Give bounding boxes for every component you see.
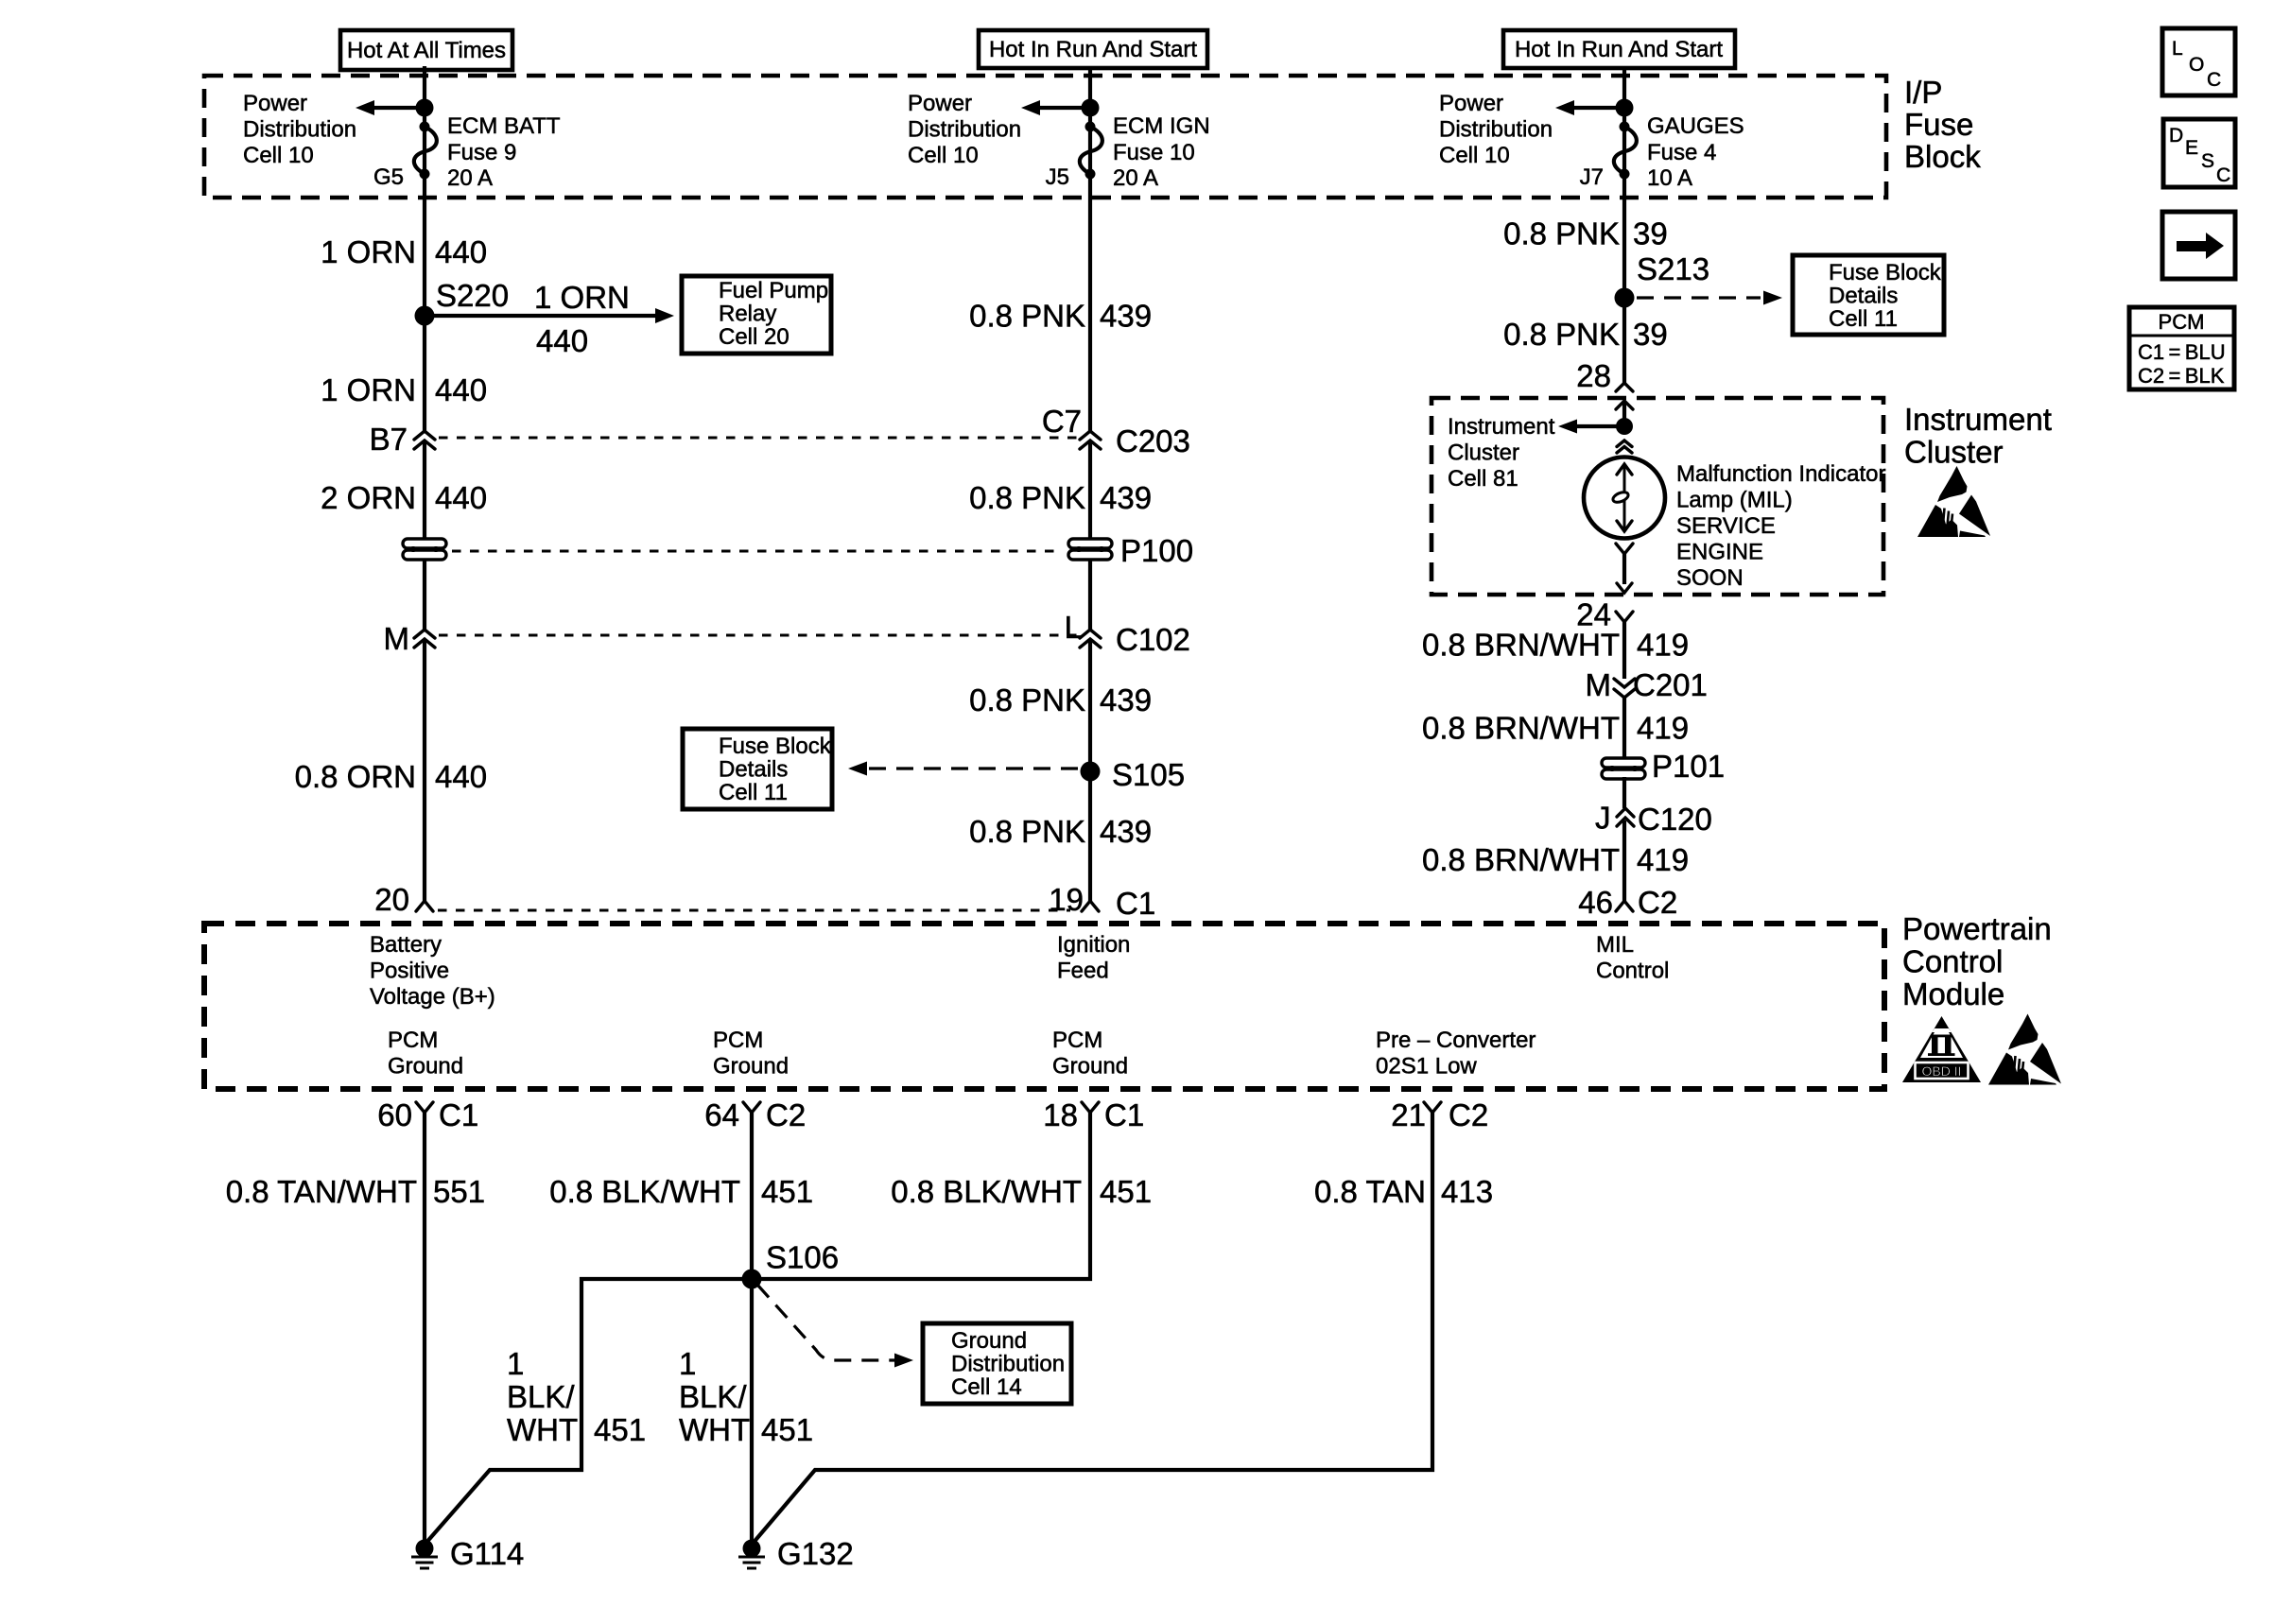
- svg-text:0.8 TAN/WHT: 0.8 TAN/WHT: [226, 1174, 417, 1209]
- label 1 BLK/WHT 451 (right): [679, 1346, 813, 1447]
- svg-text:451: 451: [594, 1412, 646, 1447]
- svg-text:64: 64: [704, 1097, 739, 1132]
- wire segment mid col below C102: [1088, 641, 1092, 901]
- svg-text:OBD II: OBD II: [1921, 1063, 1961, 1079]
- I/P fuse block dashed box: [204, 76, 1886, 198]
- svg-text:D: D: [2169, 125, 2183, 147]
- svg-text:439: 439: [1100, 814, 1152, 849]
- svg-text:21: 21: [1391, 1097, 1426, 1132]
- svg-text:451: 451: [761, 1174, 813, 1209]
- pin 19 C1 chevron at PCM: [1049, 882, 1155, 921]
- svg-text:Distribution: Distribution: [1439, 117, 1553, 143]
- pin 46 C2 chevron at PCM: [1578, 885, 1677, 920]
- legend DESC box: [2163, 119, 2235, 187]
- callout box Fuel Pump Relay Cell 20: [682, 276, 831, 354]
- svg-text:C7: C7: [1042, 404, 1082, 439]
- banner box Hot At All Times: [340, 30, 512, 70]
- wire from banner 3 into fuse block: [1622, 66, 1626, 383]
- svg-text:28: 28: [1576, 358, 1611, 393]
- label 0.8 TAN 413: [1314, 1174, 1493, 1209]
- label 0.8 BRN/WHT 419 (2): [1422, 711, 1689, 746]
- callout box Fuse Block Details Cell 11 (right): [1793, 255, 1944, 335]
- svg-text:C: C: [2216, 164, 2230, 186]
- label 0.8 BLK/WHT 451 (left): [549, 1174, 813, 1209]
- splice S105: [1081, 757, 1186, 792]
- svg-text:Voltage (B+): Voltage (B+): [370, 984, 495, 1010]
- label 0.8 BRN/WHT 419 (3): [1422, 842, 1689, 877]
- svg-text:ENGINE: ENGINE: [1676, 540, 1763, 565]
- svg-text:C1 = BLU: C1 = BLU: [2138, 340, 2226, 364]
- ESD symbol (PCM): [1988, 1014, 2061, 1085]
- dashed link pin 20 to pin 19: [438, 909, 1070, 912]
- svg-text:M: M: [384, 621, 410, 656]
- banner box Hot In Run And Start (right): [1503, 30, 1735, 68]
- svg-text:Block: Block: [1904, 139, 1981, 174]
- svg-text:Fuse Block: Fuse Block: [719, 734, 832, 759]
- wire segment left col below B7: [423, 441, 426, 539]
- connector C203: [1042, 404, 1190, 458]
- svg-text:Feed: Feed: [1057, 959, 1109, 984]
- ESD symbol (instrument cluster): [1917, 466, 1990, 537]
- svg-text:0.8 PNK: 0.8 PNK: [969, 299, 1085, 334]
- svg-text:Cell 10: Cell 10: [908, 143, 979, 168]
- label Instrument Cluster (title): [1904, 402, 2052, 470]
- svg-text:440: 440: [435, 372, 487, 407]
- label 0.8 BRN/WHT 419 (1): [1422, 628, 1689, 663]
- svg-text:440: 440: [435, 480, 487, 515]
- svg-text:0.8 BRN/WHT: 0.8 BRN/WHT: [1422, 711, 1620, 746]
- in-line connector (left, pass-through): [403, 539, 446, 560]
- in-line connector P101: [1602, 749, 1725, 784]
- banner box Hot In Run And Start (middle): [979, 30, 1207, 68]
- splice S220: [415, 278, 510, 326]
- wire segment P101 to C120: [1622, 777, 1626, 808]
- PCM pin function text PCM Ground 3: [1052, 1028, 1128, 1080]
- svg-text:0.8 PNK: 0.8 PNK: [969, 480, 1085, 515]
- svg-text:O: O: [2189, 54, 2204, 76]
- svg-text:0.8 BLK/WHT: 0.8 BLK/WHT: [549, 1174, 740, 1209]
- label 0.8 PNK 439 (2): [969, 480, 1152, 515]
- wire segment left col below M: [423, 641, 426, 901]
- svg-text:G114: G114: [450, 1536, 524, 1571]
- svg-text:Details: Details: [1829, 284, 1898, 309]
- wire segment left col below P100 lens: [423, 560, 426, 630]
- junction dot col3: [1616, 99, 1634, 117]
- svg-text:J5: J5: [1046, 164, 1069, 190]
- svg-text:Lamp (MIL): Lamp (MIL): [1676, 488, 1793, 513]
- pin 64 C2 with Y connector: [704, 1097, 806, 1132]
- splice S106: [742, 1240, 840, 1289]
- svg-text:C102: C102: [1116, 622, 1190, 657]
- pin 18 C1 with Y connector: [1043, 1097, 1144, 1132]
- svg-text:Hot In Run And Start: Hot In Run And Start: [989, 37, 1197, 62]
- text Power Distribution Cell 10 col3: [1439, 91, 1553, 168]
- callout box Ground Distribution Cell 14: [923, 1323, 1071, 1404]
- svg-text:ECM IGN: ECM IGN: [1113, 113, 1210, 139]
- svg-text:440: 440: [435, 234, 487, 269]
- svg-text:10 A: 10 A: [1647, 165, 1692, 191]
- svg-text:Power: Power: [1439, 91, 1503, 116]
- svg-text:20: 20: [374, 882, 409, 917]
- svg-text:M: M: [1586, 667, 1612, 702]
- svg-text:Cell 81: Cell 81: [1448, 466, 1518, 492]
- svg-text:0.8 BRN/WHT: 0.8 BRN/WHT: [1422, 628, 1620, 663]
- label ECM IGN Fuse 10 20 A: [1113, 113, 1210, 191]
- svg-text:2 ORN: 2 ORN: [321, 480, 416, 515]
- svg-text:451: 451: [1100, 1174, 1152, 1209]
- connector C201: [1586, 667, 1708, 702]
- svg-text:Fuse 4: Fuse 4: [1647, 140, 1716, 165]
- svg-text:Details: Details: [719, 757, 788, 783]
- wire from banner 2 into fuse block: [1088, 66, 1092, 431]
- connector B7 half: [370, 422, 435, 457]
- PCM pin function text Battery Positive Voltage (B+): [370, 932, 495, 1010]
- svg-text:SERVICE: SERVICE: [1676, 513, 1776, 539]
- svg-text:20 A: 20 A: [1113, 165, 1158, 191]
- label 0.8 ORN 440: [295, 759, 487, 794]
- svg-text:Cluster: Cluster: [1904, 435, 2004, 470]
- svg-text:WHT: WHT: [679, 1412, 750, 1447]
- wire segment mid col below P100: [1088, 560, 1092, 630]
- svg-text:Cell 11: Cell 11: [1829, 306, 1898, 332]
- label 1 ORN 440 (upper): [321, 234, 487, 269]
- text Instrument Cluster Cell 81: [1448, 414, 1555, 492]
- svg-text:S106: S106: [766, 1240, 839, 1275]
- svg-text:Fuel Pump: Fuel Pump: [719, 278, 828, 303]
- svg-text:419: 419: [1637, 842, 1689, 877]
- svg-text:Cell 10: Cell 10: [1439, 143, 1510, 168]
- svg-text:0.8 BLK/WHT: 0.8 BLK/WHT: [891, 1174, 1082, 1209]
- svg-text:60: 60: [377, 1097, 412, 1132]
- svg-text:Distribution: Distribution: [908, 117, 1021, 143]
- arrow to Power Distribution col1: [356, 100, 425, 115]
- svg-text:MIL: MIL: [1596, 932, 1634, 958]
- svg-text:Malfunction Indicator: Malfunction Indicator: [1676, 461, 1885, 487]
- svg-text:Distribution: Distribution: [243, 117, 356, 143]
- svg-text:Power: Power: [243, 91, 307, 116]
- wire from banner 1 into fuse block: [423, 66, 426, 431]
- svg-text:Ground: Ground: [951, 1328, 1027, 1354]
- text Malfunction Indicator Lamp (MIL) SERVICE ENGINE SOON: [1676, 461, 1885, 591]
- PCM pin function text PCM Ground 1: [388, 1028, 463, 1080]
- connector halves above MIL lamp: [1617, 441, 1632, 453]
- in-line connector P100: [1068, 533, 1193, 568]
- svg-text:B7: B7: [370, 422, 408, 457]
- svg-text:Control: Control: [1596, 959, 1669, 984]
- svg-text:Cell 10: Cell 10: [243, 143, 314, 168]
- text Power Distribution Cell 10 col1: [243, 91, 356, 168]
- svg-text:P100: P100: [1120, 533, 1193, 568]
- label GAUGES Fuse 4 10 A: [1647, 113, 1744, 191]
- svg-text:Ground: Ground: [388, 1054, 463, 1080]
- label 0.8 PNK 439 (1): [969, 299, 1152, 334]
- svg-text:C2: C2: [766, 1097, 806, 1132]
- svg-text:439: 439: [1100, 682, 1152, 717]
- label Powertrain Control Module (title): [1902, 911, 2052, 1011]
- svg-text:S213: S213: [1637, 251, 1709, 286]
- Instrument Cluster dashed box: [1431, 398, 1883, 595]
- svg-text:439: 439: [1100, 480, 1152, 515]
- svg-text:G5: G5: [373, 164, 404, 190]
- label 0.8 PNK 39 (1): [1503, 216, 1668, 251]
- svg-text:0.8 PNK: 0.8 PNK: [1503, 216, 1620, 251]
- legend PCM connector colors box: [2129, 307, 2234, 389]
- svg-text:L: L: [1065, 610, 1082, 645]
- junction dot col1: [416, 99, 434, 117]
- connector C120: [1595, 801, 1712, 838]
- svg-text:PCM: PCM: [713, 1028, 763, 1053]
- svg-text:P101: P101: [1652, 749, 1725, 784]
- label 2 ORN 440: [321, 480, 487, 515]
- text Power Distribution Cell 10 col2: [908, 91, 1021, 168]
- svg-text:Cluster: Cluster: [1448, 441, 1519, 466]
- label 0.8 PNK 39 (2): [1503, 317, 1668, 352]
- svg-text:Ground: Ground: [713, 1054, 789, 1080]
- svg-text:ECM BATT: ECM BATT: [447, 113, 561, 139]
- MIL lamp symbol: [1584, 458, 1665, 539]
- svg-text:C201: C201: [1633, 667, 1708, 702]
- svg-text:PCM: PCM: [1052, 1028, 1102, 1053]
- wire segment mid col below C203: [1088, 441, 1092, 539]
- svg-text:Ground: Ground: [1052, 1054, 1128, 1080]
- PCM dashed box: [204, 924, 1884, 1089]
- legend LOC box: [2162, 28, 2235, 95]
- svg-text:1 ORN: 1 ORN: [534, 280, 630, 315]
- svg-text:20 A: 20 A: [447, 165, 493, 191]
- pin 21 C2 with Y connector: [1391, 1097, 1488, 1132]
- PCM pin function text Pre-Converter O2S1 Low: [1376, 1028, 1536, 1080]
- svg-text:19: 19: [1049, 882, 1084, 917]
- svg-text:419: 419: [1637, 628, 1689, 663]
- svg-text:Control: Control: [1902, 944, 2003, 979]
- svg-text:46: 46: [1578, 885, 1613, 920]
- svg-text:C: C: [2207, 69, 2221, 91]
- svg-text:39: 39: [1633, 317, 1668, 352]
- svg-text:1: 1: [679, 1346, 696, 1381]
- svg-text:C120: C120: [1638, 802, 1712, 837]
- svg-text:C1: C1: [439, 1097, 478, 1132]
- label 1 ORN 440 (lower): [321, 372, 487, 407]
- svg-text:Distribution: Distribution: [951, 1352, 1065, 1377]
- svg-text:C1: C1: [1116, 886, 1155, 921]
- svg-text:I/P: I/P: [1904, 75, 1942, 110]
- dashed link left lens to P100: [452, 550, 1063, 553]
- pin 28 connector into cluster: [1576, 358, 1633, 426]
- svg-text:GAUGES: GAUGES: [1647, 113, 1744, 139]
- svg-text:G132: G132: [777, 1536, 854, 1571]
- svg-text:Cell 11: Cell 11: [719, 780, 788, 805]
- svg-text:0.8 PNK: 0.8 PNK: [969, 814, 1085, 849]
- svg-text:Pre – Converter: Pre – Converter: [1376, 1028, 1536, 1053]
- legend arrow box: [2162, 212, 2235, 279]
- svg-text:0.8 ORN: 0.8 ORN: [295, 759, 416, 794]
- splice S213: [1615, 251, 1710, 308]
- junction dot col2: [1082, 99, 1100, 117]
- svg-text:0.8 BRN/WHT: 0.8 BRN/WHT: [1422, 842, 1620, 877]
- connector C102: [1065, 610, 1190, 657]
- svg-text:C2 = BLK: C2 = BLK: [2138, 364, 2225, 388]
- wire 60C1 to G114: [423, 1113, 426, 1541]
- svg-text:Cell 20: Cell 20: [719, 324, 789, 350]
- svg-text:0.8 PNK: 0.8 PNK: [1503, 317, 1620, 352]
- svg-text:Fuse: Fuse: [1904, 107, 1973, 142]
- svg-text:Instrument: Instrument: [1904, 402, 2052, 437]
- ground G132: [738, 1536, 854, 1571]
- svg-text:J: J: [1595, 801, 1611, 836]
- dashed arrow S213 to fuse block details: [1637, 291, 1782, 305]
- svg-text:451: 451: [761, 1412, 813, 1447]
- fuse F4 symbol: [1614, 122, 1637, 180]
- svg-text:1: 1: [507, 1346, 524, 1381]
- wire 18C1 down and left to S106: [752, 1113, 1090, 1279]
- svg-text:0.8 TAN: 0.8 TAN: [1314, 1174, 1426, 1209]
- svg-text:Powertrain: Powertrain: [1902, 911, 2052, 946]
- ground G114: [411, 1536, 524, 1571]
- svg-text:Instrument: Instrument: [1448, 414, 1555, 440]
- svg-text:419: 419: [1637, 711, 1689, 746]
- svg-text:Positive: Positive: [370, 959, 449, 984]
- fuse F10 symbol: [1080, 122, 1102, 180]
- dashed arrow S105 to fuse block details: [848, 762, 1078, 776]
- svg-text:SOON: SOON: [1676, 565, 1744, 591]
- svg-text:Cell 14: Cell 14: [951, 1374, 1022, 1400]
- label I/P Fuse Block: [1904, 75, 1981, 174]
- pin 24 connector below cluster: [1576, 597, 1633, 632]
- callout box Fuse Block Details Cell 11 (left): [683, 729, 832, 809]
- svg-text:551: 551: [433, 1174, 485, 1209]
- PCM pin function text Ignition Feed: [1057, 932, 1130, 984]
- wire 64C2 through S106 to G132: [750, 1113, 754, 1541]
- label 1 BLK/WHT 451 (left): [507, 1346, 646, 1447]
- label 0.8 TAN/WHT 551: [226, 1174, 485, 1209]
- svg-text:Hot In Run And Start: Hot In Run And Start: [1515, 37, 1723, 62]
- arrow to Power Distribution col3: [1555, 100, 1624, 115]
- svg-text:BLK/: BLK/: [507, 1379, 575, 1414]
- svg-text:S: S: [2201, 150, 2214, 172]
- PCM pin function text PCM Ground 2: [713, 1028, 789, 1080]
- svg-text:18: 18: [1043, 1097, 1078, 1132]
- svg-text:L: L: [2172, 38, 2183, 60]
- pin 60 C1 with Y connector: [377, 1097, 478, 1132]
- dashed arrow S106 to Ground Distribution: [757, 1285, 913, 1368]
- svg-text:J7: J7: [1580, 164, 1604, 190]
- svg-text:Fuse 9: Fuse 9: [447, 140, 516, 165]
- svg-text:Hot At All Times: Hot At All Times: [347, 38, 506, 63]
- dashed link M to L: [439, 634, 1078, 637]
- dashed link B7 to C7: [439, 437, 1078, 440]
- svg-text:413: 413: [1441, 1174, 1493, 1209]
- junction dot cluster feed: [1616, 418, 1633, 435]
- svg-text:Fuse Block: Fuse Block: [1829, 260, 1942, 285]
- svg-text:Relay: Relay: [719, 302, 776, 327]
- svg-text:S105: S105: [1112, 757, 1185, 792]
- fuse F9 symbol: [414, 122, 437, 180]
- svg-text:Module: Module: [1902, 976, 2004, 1011]
- connector M half: [384, 621, 436, 656]
- svg-text:BLK/: BLK/: [679, 1379, 747, 1414]
- arrow to Power Distribution col2: [1021, 100, 1090, 115]
- svg-text:Power: Power: [908, 91, 972, 116]
- label ECM BATT Fuse 9 20 A: [447, 113, 561, 191]
- svg-text:S220: S220: [436, 278, 509, 313]
- svg-text:Fuse 10: Fuse 10: [1113, 140, 1195, 165]
- wire segment C201 to P101: [1622, 697, 1626, 760]
- svg-text:PCM: PCM: [2159, 310, 2205, 334]
- arrow wire S220 to Fuel Pump Relay: [425, 280, 674, 358]
- svg-text:1 ORN: 1 ORN: [321, 372, 416, 407]
- svg-text:E: E: [2185, 137, 2198, 159]
- svg-text:1 ORN: 1 ORN: [321, 234, 416, 269]
- svg-text:C2: C2: [1449, 1097, 1488, 1132]
- svg-text:WHT: WHT: [507, 1412, 578, 1447]
- wire 21C2 down, left, diagonal to G132: [752, 1113, 1432, 1545]
- label 0.8 PNK 439 (4): [969, 814, 1152, 849]
- svg-text:439: 439: [1100, 299, 1152, 334]
- svg-text:39: 39: [1633, 216, 1668, 251]
- connector Y below MIL lamp: [1616, 544, 1633, 593]
- svg-text:PCM: PCM: [388, 1028, 438, 1053]
- svg-text:C1: C1: [1104, 1097, 1144, 1132]
- pin 20 chevron at PCM: [374, 882, 433, 917]
- PCM pin function text MIL Control: [1596, 932, 1669, 984]
- svg-text:Ignition: Ignition: [1057, 932, 1130, 958]
- arrow to Instrument Cluster Cell 81: [1558, 420, 1624, 434]
- svg-text:C2: C2: [1638, 885, 1677, 920]
- wire segment C120 to pin 46: [1622, 821, 1626, 901]
- svg-text:02S1 Low: 02S1 Low: [1376, 1054, 1477, 1080]
- svg-text:0.8 PNK: 0.8 PNK: [969, 682, 1085, 717]
- wire segment 24 to C201: [1622, 622, 1626, 679]
- wire branch S106 left step down to G114: [425, 1279, 752, 1545]
- OBD II symbol: [1902, 1016, 1981, 1082]
- svg-text:440: 440: [536, 323, 588, 358]
- svg-text:C203: C203: [1116, 423, 1190, 458]
- svg-text:440: 440: [435, 759, 487, 794]
- label 0.8 PNK 439 (3): [969, 682, 1152, 717]
- label 0.8 BLK/WHT 451 (middle): [891, 1174, 1152, 1209]
- svg-text:Battery: Battery: [370, 932, 442, 958]
